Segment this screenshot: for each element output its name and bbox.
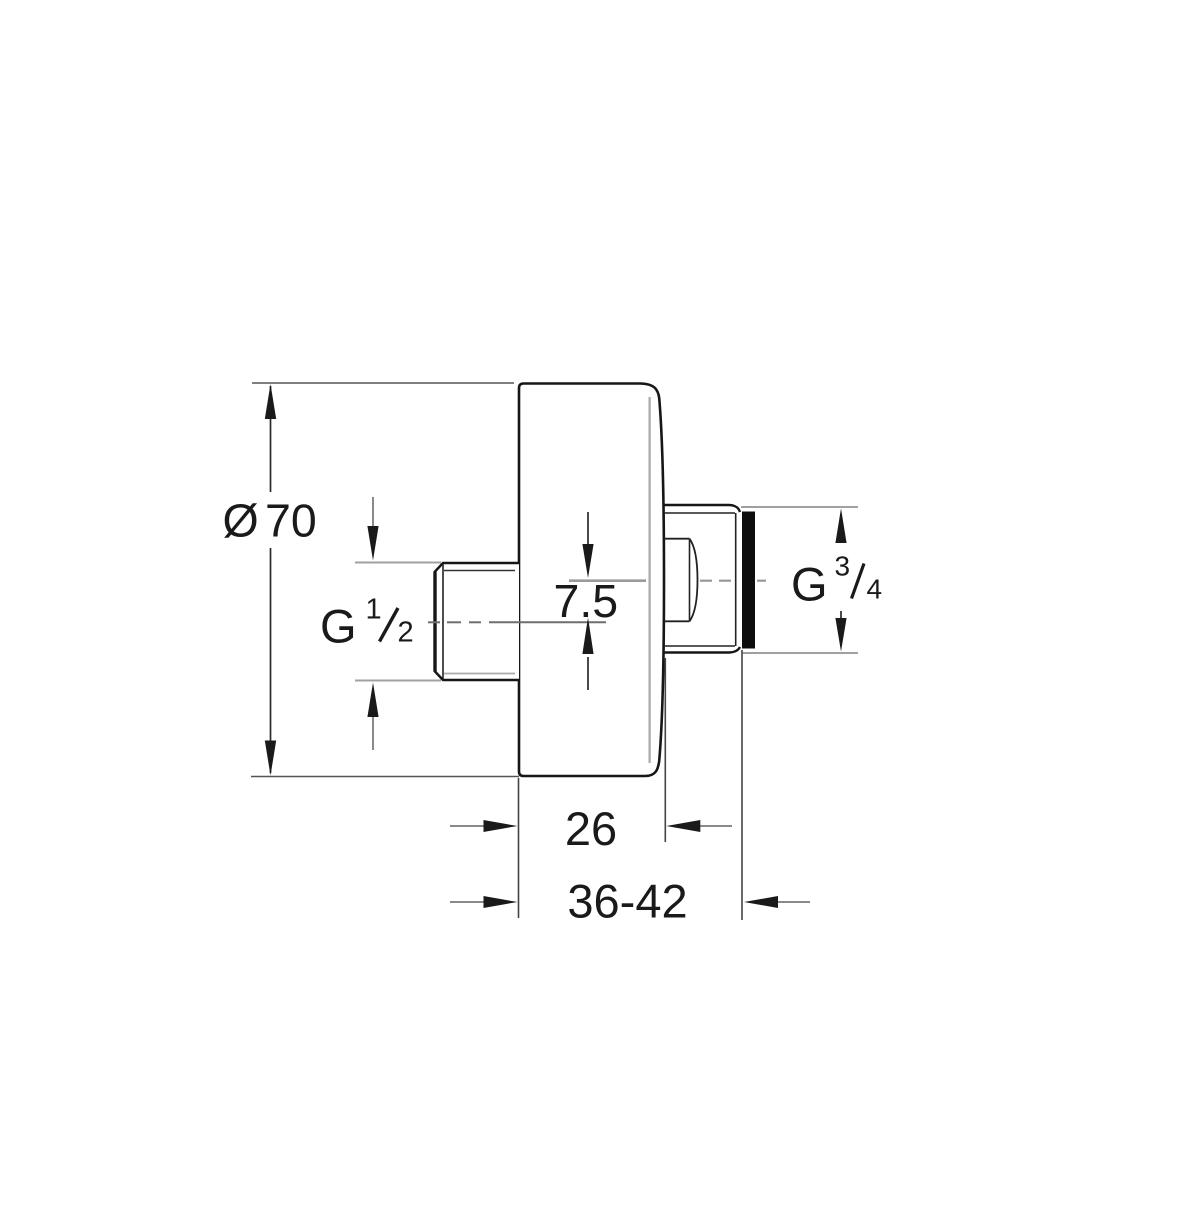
G3/4 extension line top [741,506,858,508]
cylinder end face [735,513,737,646]
centerline of G3/4 cylinder (dash-dot) [700,580,766,582]
centerline of G1/2 nipple (dashed) [428,621,606,623]
7.5 arrow top [582,512,593,578]
G3/4 arrow down [835,611,846,652]
dimension Ø70 extension line top [252,382,514,384]
cylinder G3/4 (right stub) top edge [664,505,740,512]
G3/4 arrow up [835,509,846,544]
flange front-face edge line [648,397,650,763]
26 dimension arrow left [450,820,518,832]
G1/2 extension line top [355,562,441,564]
cylinder bottom edge [664,647,740,653]
socket bore top edge [664,538,690,540]
nipple G1/2 (left stub) outline [435,563,519,680]
36-42 extension line right [741,650,743,920]
cylinder thread line bottom [664,645,735,647]
svg-text:4: 4 [867,574,883,605]
svg-text:26: 26 [565,802,617,855]
7.5 arrow bottom [582,618,593,691]
26 extension line left [518,778,520,918]
svg-text:3: 3 [835,551,851,582]
dimension Ø70 arrow up [265,384,276,419]
svg-text:7.5: 7.5 [554,575,619,627]
svg-text:36-42: 36-42 [567,875,687,928]
cylinder thread line top [664,512,735,514]
dimension Ø70 arrow down [265,741,276,776]
36-42 dimension arrow right [744,896,810,908]
G1/2 extension line bottom [355,680,441,682]
label G 3/4 [791,551,882,611]
26 dimension arrow right [666,820,732,832]
dimension Ø70 line [270,386,272,773]
flange body (side view, Ø70 disc) [519,384,664,777]
socket bore end line [689,539,691,622]
G1/2 arrow bottom [367,683,378,751]
seal washer (black band) [742,512,755,649]
nipple thread line bottom [444,673,515,675]
svg-text:Ø: Ø [223,495,259,547]
G1/2 arrow top [367,497,378,561]
nipple thread line top [444,570,515,572]
label G 1/2 [320,594,414,653]
7.5 reference line [569,579,646,582]
26 extension line right [664,658,666,842]
socket bore arc [690,539,698,622]
svg-text:70: 70 [265,495,317,547]
socket bore bottom edge [664,620,690,622]
36-42 dimension arrow left [450,896,518,908]
nipple chamfer edge [442,564,444,680]
svg-text:G: G [791,558,828,611]
svg-text:2: 2 [398,617,414,649]
G3/4 extension line bottom [742,652,858,654]
svg-text:1: 1 [366,594,382,626]
dimension Ø70 extension line bottom [251,776,519,778]
nipple left face line [433,572,436,672]
svg-text:G: G [320,600,357,653]
